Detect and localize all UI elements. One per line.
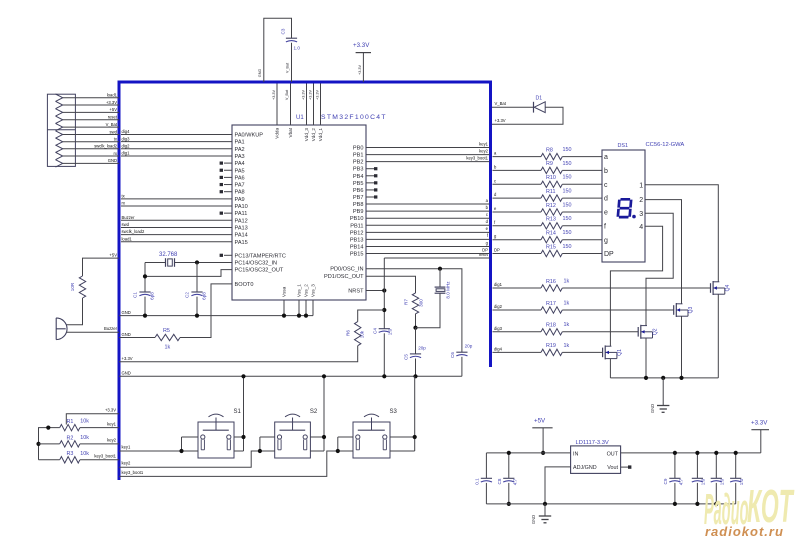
svg-text:S2: S2 (310, 409, 318, 415)
svg-text:dig2: dig2 (122, 143, 131, 148)
svg-text:key1: key1 (107, 421, 117, 426)
wire to R6 top (358, 310, 385, 322)
node R6 tee (382, 308, 386, 312)
svg-text:PA8: PA8 (235, 190, 245, 196)
transistor Q3 (N-MOSFET) (673, 305, 675, 315)
svg-text:PB8: PB8 (353, 202, 364, 208)
svg-text:6p8: 6p8 (202, 292, 207, 300)
capacitor C8 4.7 (508, 453, 510, 478)
svg-text:a: a (604, 154, 608, 161)
svg-text:150: 150 (563, 175, 572, 181)
svg-text:4.7: 4.7 (512, 478, 517, 485)
svg-text:+3.3V: +3.3V (751, 420, 768, 427)
GND rail lower (119, 375, 462, 377)
wire PB15 segment DP (366, 253, 490, 255)
wire R18 to gate (562, 331, 638, 333)
svg-text:R16: R16 (546, 279, 556, 285)
svg-text:PA5: PA5 (235, 168, 245, 174)
svg-text:+3.3V: +3.3V (358, 65, 362, 75)
resistor R11 150 segment d (493, 197, 542, 199)
svg-text:DP: DP (604, 251, 614, 258)
wire PB9 segment b (366, 210, 490, 212)
wire dig2 to PA2 (121, 148, 232, 150)
node C1 junction (143, 274, 147, 278)
capacitor C9 4.7 (674, 453, 676, 478)
wire PB12 segment e (366, 231, 490, 233)
capacitor C5 20p (410, 353, 421, 355)
svg-text:R17: R17 (546, 301, 556, 307)
svg-text:1k: 1k (564, 322, 570, 328)
svg-text:R9: R9 (546, 161, 553, 167)
node C5-gnd (413, 374, 417, 378)
svg-text:key2: key2 (107, 438, 117, 443)
svg-text:6p8: 6p8 (150, 292, 155, 300)
svg-text:PB3: PB3 (353, 167, 364, 173)
svg-text:key1: key1 (479, 141, 489, 146)
ground symbol (regulator) (544, 504, 546, 516)
capacitor C6 20p (456, 351, 467, 353)
resistor R3 10k (60, 457, 80, 463)
svg-text:R2: R2 (67, 435, 74, 441)
resistor R12 150 segment e (493, 211, 542, 213)
svg-text:GND: GND (108, 158, 117, 163)
capacitor 1.0 output (715, 453, 717, 478)
svg-text:Q3: Q3 (688, 306, 694, 313)
svg-text:GND: GND (258, 69, 262, 78)
resistor R9 150 segment b (493, 169, 542, 171)
svg-text:4: 4 (639, 224, 643, 231)
GND rail under MCU (119, 315, 313, 317)
wire key2 to S2 (119, 451, 260, 467)
svg-text:+3.3V: +3.3V (316, 90, 320, 100)
svg-text:150: 150 (563, 161, 572, 167)
node Q3 src (679, 376, 683, 380)
resistor R18 1k dig3 (493, 331, 542, 333)
svg-text:1k: 1k (165, 345, 171, 351)
wire load1 to PA15 (121, 241, 232, 243)
wire PB14 segment g (366, 245, 490, 247)
wire reset riser vertical (383, 258, 385, 329)
svg-text:DS1: DS1 (618, 143, 629, 149)
svg-text:Vdda: Vdda (275, 128, 280, 139)
svg-text:10k: 10k (80, 419, 89, 425)
resistor R15 150 segment DP (493, 253, 542, 255)
svg-text:Vdd_2: Vdd_2 (311, 128, 316, 142)
svg-text:Buzzer: Buzzer (104, 326, 118, 331)
capacitor 1.0 output (696, 453, 698, 478)
svg-text:swd: swd (122, 222, 130, 227)
wire reset to sheet edge (384, 257, 489, 259)
svg-text:+3.3V: +3.3V (272, 90, 276, 100)
resistor R17 1k dig2 (493, 309, 542, 311)
MCU no-connect stubs left side PA4-PA8 PA11 PC13 (224, 162, 232, 164)
svg-text:load1: load1 (122, 236, 133, 241)
wire S2 gnd drop (323, 376, 325, 437)
wire buzzer to Buzzer net (67, 331, 119, 333)
svg-text:150: 150 (563, 216, 572, 222)
wire R5 to GND entry (119, 337, 155, 339)
Vout no-connect stub (621, 466, 628, 468)
wire S3 gnd drop (414, 376, 416, 437)
svg-text:swclk_load2: swclk_load2 (94, 144, 117, 149)
svg-text:PB4: PB4 (353, 174, 364, 180)
transistor gnd rail (610, 377, 718, 379)
display 8. glyph (618, 199, 631, 217)
wire dig3 to PA1 (121, 141, 232, 143)
node C8 bottom (507, 502, 511, 506)
svg-text:dig2: dig2 (494, 304, 503, 309)
svg-text:PB5: PB5 (353, 181, 364, 187)
wire BOOT0 to R5 (180, 284, 232, 338)
wire R19 to gate (562, 351, 602, 353)
svg-text:Vss_1: Vss_1 (297, 284, 302, 297)
svg-text:V_Bat: V_Bat (495, 101, 507, 106)
resistor R2 10k (60, 441, 80, 447)
wire NRST to reset riser (366, 290, 384, 292)
svg-text:PB7: PB7 (353, 195, 364, 201)
svg-text:C2: C2 (185, 292, 190, 298)
wire display pin2 to Q3 drain (645, 200, 682, 304)
wire PD0/OSC_IN to C6 column (366, 269, 462, 353)
svg-text:Vssa: Vssa (282, 286, 287, 297)
node C8 top (507, 451, 511, 455)
wire resistor to buzzer (67, 298, 83, 325)
svg-text:C5: C5 (404, 354, 409, 360)
diode D1 (Vbat) (492, 106, 534, 108)
svg-text:R5: R5 (163, 328, 170, 334)
svg-text:S1: S1 (234, 409, 242, 415)
wire dig4 to PA0 (121, 134, 232, 136)
svg-text:R19: R19 (546, 343, 556, 349)
svg-text:PB0: PB0 (353, 146, 364, 152)
wire C3 top to GND entry (264, 18, 292, 82)
svg-text:R6: R6 (346, 330, 351, 336)
svg-text:R11: R11 (546, 189, 556, 195)
regulator output rail (621, 452, 761, 454)
wire key3_boot1 to S3 (119, 451, 338, 476)
svg-text:swd: swd (110, 129, 118, 134)
svg-text:Q1: Q1 (617, 349, 623, 356)
svg-text:R18: R18 (546, 323, 556, 329)
svg-text:GND: GND (122, 310, 131, 315)
svg-text:1k: 1k (564, 278, 570, 284)
svg-text:PC14/OSC32_IN: PC14/OSC32_IN (235, 260, 278, 266)
wire R7 bottom to node (415, 314, 417, 328)
svg-text:R10: R10 (546, 175, 556, 181)
connector pin wires (63, 97, 119, 99)
wire tx to PA9 (121, 198, 232, 200)
wire display pin4 to Q1 drain (610, 226, 662, 346)
wire Q4 source to gnd rail (717, 294, 719, 378)
node R2 bus (36, 442, 40, 446)
svg-text:C8: C8 (497, 478, 502, 484)
svg-text:PB1: PB1 (353, 153, 364, 159)
svg-text:ADJ/GND: ADJ/GND (573, 465, 597, 471)
wire R6 bottom to +3.3V rail (119, 346, 358, 362)
svg-text:U1: U1 (296, 115, 304, 121)
svg-text:PA7: PA7 (235, 183, 245, 189)
svg-text:V_Bat: V_Bat (286, 62, 290, 73)
svg-text:1: 1 (639, 182, 643, 189)
wire crystal bottom to R7 node (416, 293, 441, 328)
resistor R13 150 segment f (493, 225, 542, 227)
wire R2 to key2 (80, 443, 119, 445)
svg-text:PB13: PB13 (350, 237, 364, 243)
svg-text:PA15: PA15 (235, 240, 248, 246)
svg-text:R7: R7 (404, 299, 409, 305)
ground rail bottom (486, 503, 735, 505)
svg-text:PB6: PB6 (353, 188, 364, 194)
svg-text:dig1: dig1 (122, 151, 131, 156)
svg-text:PB9: PB9 (353, 209, 364, 215)
svg-text:key3_boot1: key3_boot1 (466, 155, 488, 160)
svg-text:dig4: dig4 (494, 346, 503, 351)
svg-text:dig3: dig3 (494, 326, 503, 331)
svg-text:PA10: PA10 (235, 204, 248, 210)
svg-text:Buzzer: Buzzer (122, 215, 136, 220)
resistor R19 1k dig4 (493, 351, 542, 353)
svg-text:c: c (494, 178, 496, 183)
node key1-S1 (179, 449, 183, 453)
wire ADJ to gnd (545, 467, 571, 504)
svg-text:3: 3 (639, 211, 643, 218)
svg-text:PB2: PB2 (353, 160, 364, 166)
resistor R6 10k (NRST pullup) (355, 322, 361, 346)
svg-text:150: 150 (563, 202, 572, 208)
wire Q2 source to gnd rail (645, 338, 647, 378)
node C4-gnd (382, 374, 386, 378)
regulator U2 LD1117-3.3V (571, 446, 621, 474)
svg-text:BOOT0: BOOT0 (235, 282, 254, 288)
svg-text:1k: 1k (564, 300, 570, 306)
svg-text:PC15/OSC32_OUT: PC15/OSC32_OUT (235, 268, 284, 274)
MCU no-connect stubs right side PB3-PB7 (366, 168, 374, 170)
wire Q1 source to gnd rail (609, 359, 611, 378)
svg-text:Vss_2: Vss_2 (304, 284, 309, 297)
wire +5V to resistor 10R (83, 258, 120, 276)
wire PB0 key1 (366, 147, 490, 149)
svg-text:PB12: PB12 (350, 230, 364, 236)
svg-text:Q4: Q4 (725, 284, 731, 291)
svg-text:c: c (604, 182, 608, 189)
svg-text:C3: C3 (281, 28, 286, 34)
svg-text:R3: R3 (67, 451, 74, 457)
svg-text:Vdd_1: Vdd_1 (318, 128, 323, 142)
svg-text:C4: C4 (372, 328, 377, 334)
svg-text:key3_boot1: key3_boot1 (122, 470, 144, 475)
resistor R10 150 segment c (493, 183, 542, 185)
svg-text:R8: R8 (546, 147, 553, 153)
svg-text:dig3: dig3 (122, 136, 131, 141)
node crystal top (438, 267, 442, 271)
svg-text:R13: R13 (546, 217, 556, 223)
svg-text:10k: 10k (360, 330, 365, 338)
svg-text:OUT: OUT (607, 451, 619, 457)
transistor Q1 (N-MOSFET) (602, 348, 604, 358)
svg-text:CC56-12-GWA: CC56-12-GWA (646, 142, 685, 148)
transistor Q4 (N-MOSFET) (710, 283, 712, 293)
wire swd to PA13 (121, 226, 232, 228)
wire PB1 key2 (366, 154, 490, 156)
wire rx to PA10 (121, 205, 232, 207)
node Q2 src (644, 376, 648, 380)
svg-text:load1: load1 (107, 93, 118, 98)
node +5V in rail (541, 451, 545, 455)
svg-text:GND: GND (122, 332, 131, 337)
pushbutton S2 (275, 422, 311, 458)
svg-text:NRST: NRST (348, 289, 364, 295)
svg-text:f: f (604, 223, 606, 230)
svg-text:S3: S3 (390, 409, 398, 415)
svg-text:key3_boot1: key3_boot1 (94, 454, 116, 459)
svg-text:reset: reset (108, 115, 118, 120)
svg-text:PB11: PB11 (350, 223, 363, 229)
node S3 right (413, 435, 417, 439)
svg-text:LD1117-3.3V: LD1117-3.3V (576, 440, 609, 446)
wire PB8 segment a (366, 203, 490, 205)
svg-text:32.768: 32.768 (159, 252, 178, 258)
ground symbol (digit drivers) (662, 378, 664, 406)
node R7-crystal-C5 (413, 326, 417, 330)
node Vssa-gnd (282, 314, 286, 318)
svg-text:+3.3V: +3.3V (353, 42, 370, 49)
transistor Q2 (N-MOSFET) (637, 327, 639, 337)
svg-text:PC13/TAMPER/RTC: PC13/TAMPER/RTC (235, 253, 286, 259)
resistor R1 10k (60, 424, 80, 430)
svg-text:PA2: PA2 (235, 147, 245, 153)
wire crystal left to C1 (145, 261, 166, 263)
wire R3 to key3_boot1 (80, 459, 119, 461)
svg-text:PA3: PA3 (235, 154, 245, 160)
svg-text:e: e (604, 210, 608, 217)
svg-text:1k: 1k (564, 343, 570, 349)
svg-text:PA0/WKUP: PA0/WKUP (235, 133, 264, 139)
+3.3V power symbol bottom (760, 430, 762, 453)
+3.3V power symbol top (356, 52, 371, 54)
node crystal-C2 junction (195, 260, 199, 264)
svg-text:10k: 10k (80, 435, 89, 441)
wire C3 bottom to V_Bat entry (291, 43, 293, 82)
node key2-S2 (258, 449, 262, 453)
buzzer LS1 (55, 318, 57, 340)
wire +3.3V to R1 (66, 414, 119, 425)
svg-text:PB14: PB14 (350, 244, 364, 250)
svg-text:GND: GND (650, 404, 655, 413)
svg-text:d: d (604, 196, 608, 203)
resistor R7 300 (412, 293, 418, 314)
node S1 gnd rail (241, 374, 245, 378)
svg-text:DP: DP (494, 248, 500, 253)
capacitor C4 1.0 (NRST) (379, 328, 390, 330)
svg-text:4.7: 4.7 (678, 478, 683, 485)
svg-text:C6: C6 (450, 352, 455, 358)
wire key1 to S1 (119, 450, 182, 452)
wire Q3 source to gnd rail (681, 316, 683, 378)
regulator input rail (486, 452, 570, 454)
wire PB2 key3_boot1 (366, 161, 490, 163)
svg-text:150: 150 (563, 244, 572, 250)
svg-text:DP: DP (482, 247, 488, 252)
svg-text:20p: 20p (465, 344, 473, 349)
svg-text:C1: C1 (133, 292, 138, 298)
svg-text:0.1: 0.1 (474, 478, 479, 485)
svg-text:PB10: PB10 (350, 216, 364, 222)
svg-text:8.0 MHz: 8.0 MHz (446, 281, 451, 299)
svg-text:key2: key2 (122, 461, 132, 466)
svg-text:PD0/OSC_IN: PD0/OSC_IN (330, 267, 363, 273)
wire PB13 segment f (366, 238, 490, 240)
svg-text:key1: key1 (122, 445, 132, 450)
svg-text:GND: GND (531, 515, 536, 524)
node NRST junction (382, 288, 386, 292)
svg-text:+3.3V: +3.3V (495, 118, 506, 123)
MCU U1 STM32F100C4T box (232, 125, 366, 300)
svg-text:150: 150 (563, 189, 572, 195)
wire R16 to gate (562, 287, 710, 289)
svg-text:150: 150 (563, 230, 572, 236)
svg-text:PB15: PB15 (350, 252, 364, 258)
svg-text:10R: 10R (70, 282, 75, 291)
svg-text:PA11: PA11 (235, 211, 248, 217)
wire PB11 segment d (366, 224, 490, 226)
svg-text:R15: R15 (546, 244, 556, 250)
svg-text:Vbat: Vbat (288, 127, 293, 137)
resistor R14 150 segment g (493, 239, 542, 241)
svg-text:PA9: PA9 (235, 197, 245, 203)
watermark Radio KOT (704, 480, 795, 533)
svg-text:PA4: PA4 (235, 161, 245, 167)
svg-text:R1: R1 (67, 419, 74, 425)
svg-text:dig4: dig4 (122, 129, 131, 134)
svg-text:reset: reset (479, 252, 489, 257)
pushbutton S3 (353, 422, 390, 458)
MCU top supply pin wires Vdda Vbat Vdd_3 Vdd_2 Vdd_1 (276, 84, 278, 126)
resistor R5 1k (BOOT0 pulldown) (155, 334, 180, 340)
node key3-S3 (336, 449, 340, 453)
svg-text:+3.3V: +3.3V (105, 408, 116, 413)
svg-text:Vdd_3: Vdd_3 (304, 128, 309, 142)
svg-text:+5V: +5V (534, 418, 546, 425)
svg-text:dig1: dig1 (494, 282, 503, 287)
svg-text:c: c (486, 212, 488, 217)
svg-text:+3.3V: +3.3V (309, 90, 313, 100)
resistor R16 1k dig1 (493, 287, 542, 289)
sheet boundary (thick blue line) (119, 82, 491, 480)
svg-text:+3.3V: +3.3V (106, 100, 117, 105)
svg-text:PD1/OSC_OUT: PD1/OSC_OUT (324, 274, 364, 280)
wire display pin3 to Q2 drain (645, 213, 673, 325)
wire R1 to key1 (80, 427, 119, 429)
wire swclk_load2 to PA14 (121, 234, 232, 236)
capacitor C2 6p8 (196, 262, 198, 292)
wire PC14 to crystal (175, 261, 233, 263)
svg-text:radiokot.ru: radiokot.ru (705, 524, 784, 539)
svg-text:PA1: PA1 (235, 140, 245, 146)
wire display pin1 to Q4 drain (645, 185, 718, 282)
wire dig1 to PA3 (121, 155, 232, 157)
svg-text:R12: R12 (546, 203, 556, 209)
resistor 10R (buzzer series) (79, 276, 85, 298)
node Vss_2-gnd (304, 314, 308, 318)
svg-text:D1: D1 (536, 96, 543, 102)
node C1-gnd (143, 314, 147, 318)
node S2 right (322, 435, 326, 439)
svg-text:+3.3V: +3.3V (122, 356, 133, 361)
svg-text:Q2: Q2 (653, 328, 659, 335)
svg-text:b: b (604, 168, 608, 175)
capacitor C3 1.0 (Vbat backup) (286, 37, 297, 39)
svg-text:C9: C9 (663, 478, 668, 484)
